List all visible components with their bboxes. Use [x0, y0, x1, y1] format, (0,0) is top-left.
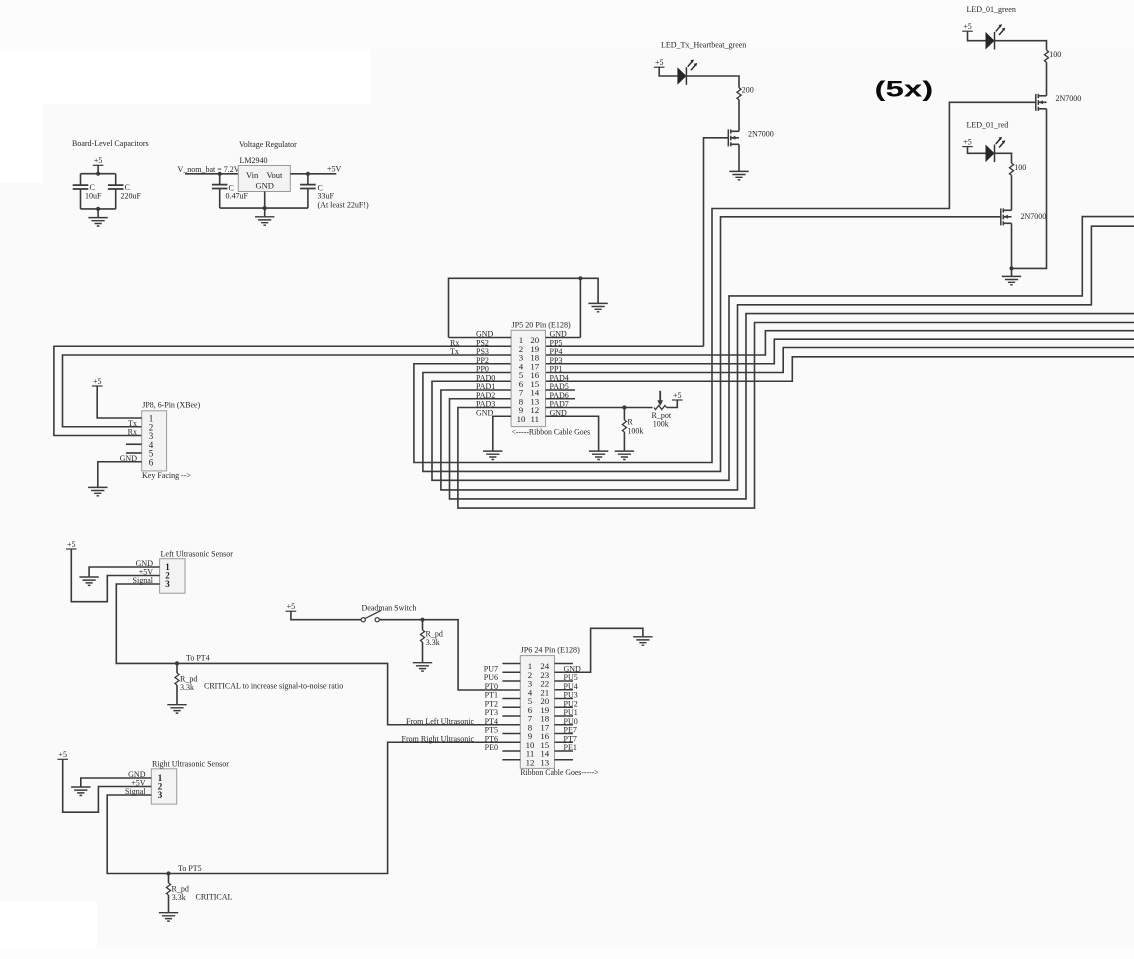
- svg-text:PT5: PT5: [485, 726, 498, 735]
- svg-text:CRITICAL to increase signal-to: CRITICAL to increase signal-to-noise rat…: [204, 681, 343, 690]
- wire R_pot to +5: [667, 400, 678, 408]
- ground LED drivers: [1002, 276, 1021, 284]
- ground R_pd left: [167, 705, 186, 713]
- wire board caps top rail: [81, 173, 116, 175]
- ground R_pd right: [159, 913, 178, 921]
- resistor R 100 green: [1044, 50, 1048, 62]
- wire resistor to Q1 drain: [738, 100, 740, 132]
- svg-text:JP6 24 Pin (E128): JP6 24 Pin (E128): [521, 645, 581, 654]
- svg-text:LED_01_green: LED_01_green: [967, 5, 1016, 14]
- svg-text:Board-Level Capacitors: Board-Level Capacitors: [72, 139, 149, 148]
- svg-text:100: 100: [1049, 50, 1061, 59]
- svg-text:LED_Tx_Heartbeat_green: LED_Tx_Heartbeat_green: [661, 41, 746, 50]
- svg-text:+5: +5: [673, 391, 682, 400]
- svg-text:2N7000: 2N7000: [748, 130, 774, 139]
- svg-text:+5: +5: [58, 750, 67, 759]
- svg-text:220uF: 220uF: [121, 191, 142, 200]
- svg-text:LM2940: LM2940: [240, 156, 268, 165]
- wire net PP0 JP5 pin 5 to Q3 gate: [423, 217, 1001, 472]
- svg-text:PT4: PT4: [485, 717, 498, 726]
- svg-text:11: 11: [531, 414, 539, 424]
- wire net PAD0 JP5 pin 6 to right edge: [432, 217, 1134, 481]
- svg-text:PAD1: PAD1: [476, 382, 495, 391]
- svg-text:100k: 100k: [627, 427, 643, 436]
- svg-text:PAD0: PAD0: [476, 373, 495, 382]
- wire Q1 source to ground: [738, 144, 740, 171]
- svg-text:3: 3: [158, 790, 163, 800]
- connector Left Ultrasonic Sensor: [160, 559, 185, 594]
- wire net PT0 switch to JP6 pin 4: [379, 620, 520, 690]
- ground R 100k: [615, 451, 634, 459]
- svg-text:Key Facing -->: Key Facing -->: [142, 471, 191, 480]
- capacitor C 10uF: [80, 174, 82, 185]
- svg-text:6: 6: [149, 457, 154, 467]
- LED D red LED_01: [986, 145, 995, 163]
- svg-text:To PT5: To PT5: [178, 864, 202, 873]
- transistor Q1 2N7000: [727, 129, 729, 146]
- net V_nom_bat input wire: [185, 173, 238, 175]
- svg-text:+5: +5: [67, 540, 76, 549]
- svg-text:GND: GND: [476, 408, 494, 417]
- wire JP8 pin 5 stub: [126, 452, 142, 454]
- wire net PAD1 JP5 pin 7 to right edge: [441, 226, 1134, 490]
- wire +5 to LED anode: [659, 67, 677, 76]
- wire net PT6 right signal to JP6 pin 10: [107, 742, 520, 873]
- svg-text:Rx: Rx: [128, 428, 137, 437]
- ground JP5 pin 10: [483, 451, 502, 459]
- wire net PAD7 JP5 pin 12 to R_pot: [546, 407, 653, 409]
- svg-text:GND: GND: [256, 181, 274, 191]
- svg-text:PAD3: PAD3: [476, 400, 495, 409]
- svg-text:PP1: PP1: [550, 365, 563, 374]
- ground Q1: [729, 171, 748, 179]
- wire net PS3 Tx JP5 pin 3 to JP8 pin 2: [63, 355, 512, 427]
- svg-text:3.3k: 3.3k: [426, 638, 440, 647]
- ground JP6: [633, 637, 652, 645]
- svg-text:2N7000: 2N7000: [1021, 212, 1047, 221]
- connector JP6 24 Pin (E128): [520, 656, 554, 769]
- ground R_pd deadman: [413, 663, 432, 671]
- wire +5 to left sensor pin 2: [71, 549, 159, 602]
- resistor R 100k: [623, 408, 625, 421]
- svg-text:R: R: [627, 418, 633, 427]
- svg-text:PT1: PT1: [485, 691, 498, 700]
- wire net PS2 Rx JP5 pin 2 to JP8 pin 3: [54, 346, 511, 435]
- svg-text:+5: +5: [655, 58, 664, 67]
- wire JP6 pin 23 GND: [555, 628, 643, 672]
- wire JP5 pin 10 GND to ground: [493, 416, 511, 450]
- svg-text:PT3: PT3: [485, 708, 498, 717]
- svg-text:PE0: PE0: [485, 743, 498, 752]
- wire right sensor pin 1 GND: [81, 778, 152, 787]
- connector JP5 20 Pin (E128): [511, 330, 545, 426]
- svg-text:PAD2: PAD2: [476, 391, 495, 400]
- svg-text:To PT4: To PT4: [186, 654, 210, 663]
- ground regulator: [255, 217, 274, 225]
- wire board caps bottom rail: [81, 208, 116, 210]
- svg-text:<-----Ribbon Cable Goes: <-----Ribbon Cable Goes: [512, 427, 591, 436]
- wire Q3 source to ground node: [1011, 223, 1013, 268]
- svg-text:Left Ultrasonic Sensor: Left Ultrasonic Sensor: [161, 549, 234, 558]
- switch SW deadman: [361, 618, 365, 622]
- wire net PAD3 JP5 pin 9 to right edge: [458, 323, 1134, 509]
- svg-text:CRITICAL: CRITICAL: [196, 892, 233, 901]
- wire JP5 pin 14 PAD5 stub: [546, 389, 576, 391]
- wire resistor to Q2 drain: [1046, 62, 1048, 96]
- svg-text:PU6: PU6: [484, 673, 498, 682]
- wire net PAD4 JP5 pin 15 to right edge: [546, 357, 1134, 381]
- svg-text:+5: +5: [94, 156, 103, 165]
- svg-text:10uF: 10uF: [85, 191, 102, 200]
- resistor R_pd 3.3k deadman: [422, 620, 424, 630]
- svg-text:JP5 20 Pin (E128): JP5 20 Pin (E128): [512, 320, 572, 329]
- svg-text:Deadman Switch: Deadman Switch: [362, 603, 417, 612]
- wire +5 stem to top rail: [97, 165, 99, 173]
- ground JP5 top: [588, 303, 607, 311]
- wire net PP4 JP5 pin 18 to right edge: [546, 331, 1134, 355]
- wire Q2 source down: [1011, 109, 1046, 269]
- wire JP6 left stubs: [502, 664, 520, 760]
- wire net PP2 JP5 pin 4 to Q2 gate: [414, 102, 1036, 462]
- ground JP8: [88, 487, 107, 495]
- wire net PAD2 JP5 pin 8 to right edge: [450, 314, 1134, 499]
- svg-text:V_nom_bat = 7.2V: V_nom_bat = 7.2V: [178, 165, 240, 174]
- svg-text:PP0: PP0: [476, 365, 489, 374]
- svg-text:PAD4: PAD4: [550, 373, 569, 382]
- wire +5 to right sensor pin 2: [63, 759, 152, 812]
- svg-text:+5: +5: [963, 22, 972, 31]
- connector Right Ultrasonic Sensor: [151, 769, 176, 804]
- svg-text:Vout: Vout: [267, 170, 284, 180]
- wire +5 to LED anode red: [968, 147, 986, 154]
- ground left sensor: [79, 577, 98, 585]
- wire +5 to JP8 pin 1: [97, 386, 142, 418]
- svg-text:LED_01_red: LED_01_red: [967, 121, 1009, 130]
- svg-text:PP5: PP5: [550, 338, 563, 347]
- wire JP5 pin 13 PAD6 stub: [546, 398, 576, 400]
- svg-text:Right Ultrasonic Sensor: Right Ultrasonic Sensor: [152, 759, 229, 768]
- svg-text:PT0: PT0: [485, 682, 498, 691]
- svg-text:PP2: PP2: [476, 356, 489, 365]
- resistor R 100 red: [1009, 163, 1013, 175]
- svg-text:(At least 22uF!): (At least 22uF!): [318, 201, 369, 210]
- svg-text:Tx: Tx: [128, 419, 137, 428]
- LED D green LED_01: [986, 32, 995, 50]
- svg-text:12: 12: [526, 757, 535, 767]
- wire LED cathode to resistor red: [995, 153, 1012, 163]
- wire regulator ground rail: [220, 192, 308, 217]
- svg-text:+5: +5: [287, 602, 296, 611]
- ground JP5 pin 11: [589, 451, 608, 459]
- connector JP8 6-Pin (XBee): [142, 411, 167, 471]
- wire JP6 right stubs: [555, 664, 574, 760]
- svg-text:PT2: PT2: [485, 699, 498, 708]
- net +5V output wire: [290, 173, 336, 175]
- wire JP5 pin 11 GND to ground: [546, 416, 599, 450]
- svg-text:+5: +5: [93, 377, 102, 386]
- wire net PT4 left signal to JP6 pin 8: [116, 584, 520, 725]
- wire +5 to switch: [291, 611, 361, 620]
- wire net PP1 JP5 pin 16 to right edge: [546, 348, 1134, 373]
- wire JP5 pins 1-20 GND loop: [449, 278, 599, 337]
- regulator U1 LM2940: [238, 166, 290, 192]
- wire +5 to LED anode green: [968, 31, 986, 41]
- svg-text:+5V: +5V: [327, 165, 342, 174]
- ground board caps: [88, 218, 107, 226]
- svg-text:Vin: Vin: [246, 170, 259, 180]
- wire resistor to Q3 drain: [1011, 175, 1013, 210]
- wire JP8 pin 6 GND: [98, 462, 142, 487]
- transistor Q2 2N7000: [1035, 94, 1037, 111]
- capacitor C 220uF: [115, 174, 117, 185]
- capacitor C 0.47uF: [218, 172, 222, 176]
- svg-text:100: 100: [1014, 163, 1026, 172]
- resistor R 200: [737, 88, 741, 100]
- potentiometer R_pot 100k: [654, 405, 667, 409]
- wire JP8 pin 4 stub: [126, 443, 142, 445]
- svg-text:10: 10: [517, 414, 526, 424]
- transistor Q3 2N7000: [1000, 208, 1002, 225]
- svg-text:3.3k: 3.3k: [180, 683, 194, 692]
- svg-text:+5: +5: [963, 137, 972, 146]
- svg-text:Voltage Regulator: Voltage Regulator: [239, 140, 297, 149]
- svg-text:(5x): (5x): [875, 77, 934, 102]
- svg-text:3: 3: [165, 579, 170, 589]
- wire net PP5 JP5 pin 19 to Q1 gate: [546, 138, 729, 346]
- capacitor C 33uF: [306, 172, 310, 176]
- svg-text:PP3: PP3: [550, 356, 563, 365]
- svg-text:PU7: PU7: [484, 664, 498, 673]
- wire net PP3 JP5 pin 17 to right edge: [546, 339, 1134, 364]
- svg-text:2N7000: 2N7000: [1056, 94, 1082, 103]
- svg-text:200: 200: [742, 86, 754, 95]
- svg-text:0.47uF: 0.47uF: [226, 192, 249, 201]
- resistor R_pd 3.3k right: [168, 874, 170, 884]
- svg-text:JP8, 6-Pin (XBee): JP8, 6-Pin (XBee): [142, 400, 200, 409]
- wire left sensor pin 1 GND: [89, 567, 160, 577]
- svg-text:Ribbon Cable Goes----->: Ribbon Cable Goes----->: [520, 768, 599, 777]
- svg-text:PP4: PP4: [550, 347, 563, 356]
- ground right sensor: [71, 787, 90, 795]
- svg-text:3.3k: 3.3k: [172, 893, 186, 902]
- svg-text:33uF: 33uF: [318, 192, 335, 201]
- wire LED cathode to resistor green: [995, 41, 1047, 51]
- LED D green heartbeat: [677, 67, 686, 85]
- svg-text:100k: 100k: [653, 419, 669, 428]
- svg-text:From Left Ultrasonic: From Left Ultrasonic: [406, 717, 474, 726]
- wire LED cathode to resistor: [686, 76, 739, 88]
- svg-text:13: 13: [540, 757, 549, 767]
- resistor R_pd 3.3k left: [176, 663, 178, 673]
